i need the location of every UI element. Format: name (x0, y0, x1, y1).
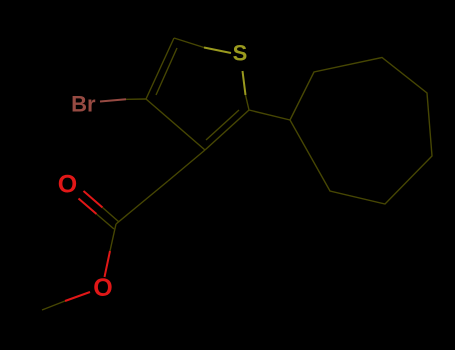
svg-text:O: O (58, 170, 77, 198)
svg-text:Br: Br (71, 92, 96, 117)
svg-text:S: S (233, 41, 248, 66)
svg-text:O: O (93, 274, 112, 302)
